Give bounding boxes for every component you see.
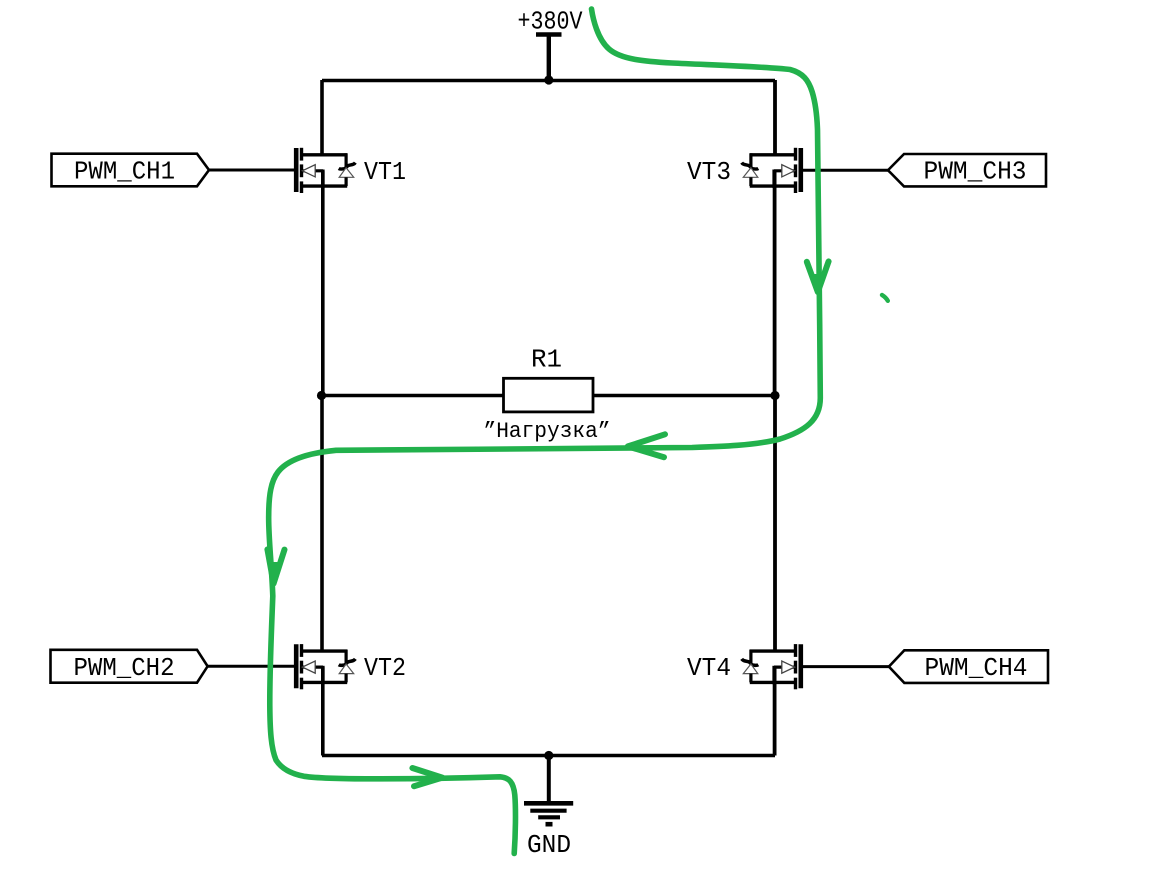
wire PWM_CH2 to VT2 gate (208, 665, 298, 668)
transistor VT1 N-MOSFET (296, 148, 355, 193)
ground symbol (524, 803, 573, 824)
svg-text:R1: R1 (531, 344, 562, 374)
global label PWM_CH3 (888, 154, 1046, 186)
green arrowhead left (middle branch) (627, 434, 665, 457)
junction dot mid right (770, 391, 779, 400)
global label PWM_CH2 (51, 650, 208, 683)
green arrowhead down (right branch) (807, 261, 829, 293)
svg-text:+380V: +380V (518, 7, 583, 37)
wire left source VT1 to mid rail (321, 171, 325, 396)
wire top rail (322, 79, 775, 83)
svg-text:GND: GND (527, 830, 571, 860)
ground stub (547, 756, 551, 804)
wire right VT4 source to bottom rail (773, 667, 777, 755)
global label PWM_CH1 (52, 154, 210, 187)
wire PWM_CH3 to VT3 gate (799, 169, 888, 172)
svg-text:VT4: VT4 (687, 653, 731, 683)
power symbol stub (547, 35, 551, 81)
svg-text:”Нагрузка”: ”Нагрузка” (484, 419, 611, 444)
wire mid rail right (593, 394, 775, 398)
wire left VT2 source to bottom rail (321, 667, 325, 755)
wire PWM_CH4 to VT4 gate (799, 665, 889, 668)
transistor VT4 N-MOSFET (mirrored) (742, 644, 801, 689)
green annotation current path (269, 9, 821, 854)
svg-text:PWM_CH4: PWM_CH4 (925, 653, 1028, 683)
transistor VT3 N-MOSFET (mirrored) (742, 148, 801, 193)
wire left drain VT1 (320, 80, 324, 155)
wire PWM_CH1 to VT1 gate (209, 169, 298, 172)
global label PWM_CH4 (889, 650, 1048, 683)
resistor R1 (504, 378, 594, 412)
junction dot top (544, 75, 553, 84)
svg-text:VT1: VT1 (364, 157, 406, 187)
transistor VT2 N-MOSFET (296, 644, 355, 689)
wire left mid to VT2 drain (320, 396, 324, 652)
junction dot bottom (544, 751, 553, 760)
svg-text:VT2: VT2 (364, 653, 406, 683)
wire bottom rail (322, 754, 775, 758)
svg-text:PWM_CH2: PWM_CH2 (74, 653, 175, 683)
green arrowhead right (bottom branch) (412, 768, 442, 786)
power symbol +380V bar (536, 32, 562, 37)
svg-text:VT3: VT3 (687, 157, 731, 187)
svg-text:PWM_CH1: PWM_CH1 (74, 157, 175, 187)
green small mark (882, 295, 888, 301)
wire right mid to VT4 drain (773, 396, 777, 652)
wire right source VT3 to mid rail (773, 171, 777, 396)
junction dot mid left (317, 391, 326, 400)
wire right drain VT3 (773, 80, 777, 155)
svg-text:PWM_CH3: PWM_CH3 (924, 157, 1027, 187)
green arrowhead down (left branch) (267, 549, 284, 585)
wire mid rail left (322, 394, 504, 398)
